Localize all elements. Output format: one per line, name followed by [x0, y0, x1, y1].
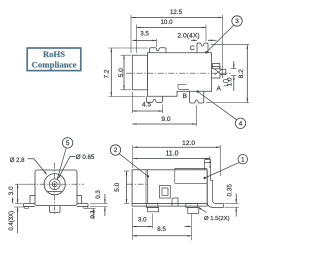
- svg-text:0.35: 0.35: [227, 184, 234, 197]
- svg-text:A: A: [217, 85, 222, 92]
- svg-text:5.0: 5.0: [118, 68, 125, 77]
- svg-text:Compliance: Compliance: [32, 59, 77, 69]
- svg-text:3.0: 3.0: [138, 216, 147, 223]
- svg-text:3.0: 3.0: [8, 186, 15, 195]
- svg-text:12.5: 12.5: [170, 9, 183, 16]
- svg-text:9.0: 9.0: [161, 116, 170, 123]
- svg-text:5: 5: [66, 140, 70, 147]
- svg-text:RoHS: RoHS: [43, 49, 65, 59]
- svg-text:5.0: 5.0: [114, 182, 121, 191]
- svg-text:Ø 2.8: Ø 2.8: [10, 158, 25, 164]
- svg-text:2: 2: [114, 147, 118, 154]
- svg-text:3: 3: [235, 18, 239, 25]
- svg-text:B: B: [183, 93, 188, 100]
- svg-text:12.0: 12.0: [182, 140, 195, 147]
- svg-text:3.5: 3.5: [140, 31, 149, 38]
- svg-text:1.0: 1.0: [227, 77, 234, 86]
- svg-text:2.0(4X): 2.0(4X): [177, 32, 199, 39]
- svg-text:4: 4: [239, 121, 243, 128]
- svg-text:10.0: 10.0: [160, 19, 173, 26]
- svg-text:7.2: 7.2: [103, 69, 110, 78]
- svg-text:0.1: 0.1: [90, 209, 97, 218]
- svg-text:11.0: 11.0: [165, 151, 178, 158]
- svg-text:8.2: 8.2: [238, 69, 245, 78]
- svg-text:8.5: 8.5: [157, 226, 166, 233]
- svg-text:Ø 1.5(2X): Ø 1.5(2X): [204, 216, 230, 222]
- svg-text:Ø 0.65: Ø 0.65: [76, 154, 95, 161]
- svg-text:0.4(3X): 0.4(3X): [9, 211, 15, 231]
- svg-text:1: 1: [241, 156, 245, 163]
- svg-text:C: C: [190, 45, 195, 52]
- svg-text:4.5: 4.5: [142, 102, 151, 109]
- svg-text:0.3: 0.3: [95, 190, 102, 199]
